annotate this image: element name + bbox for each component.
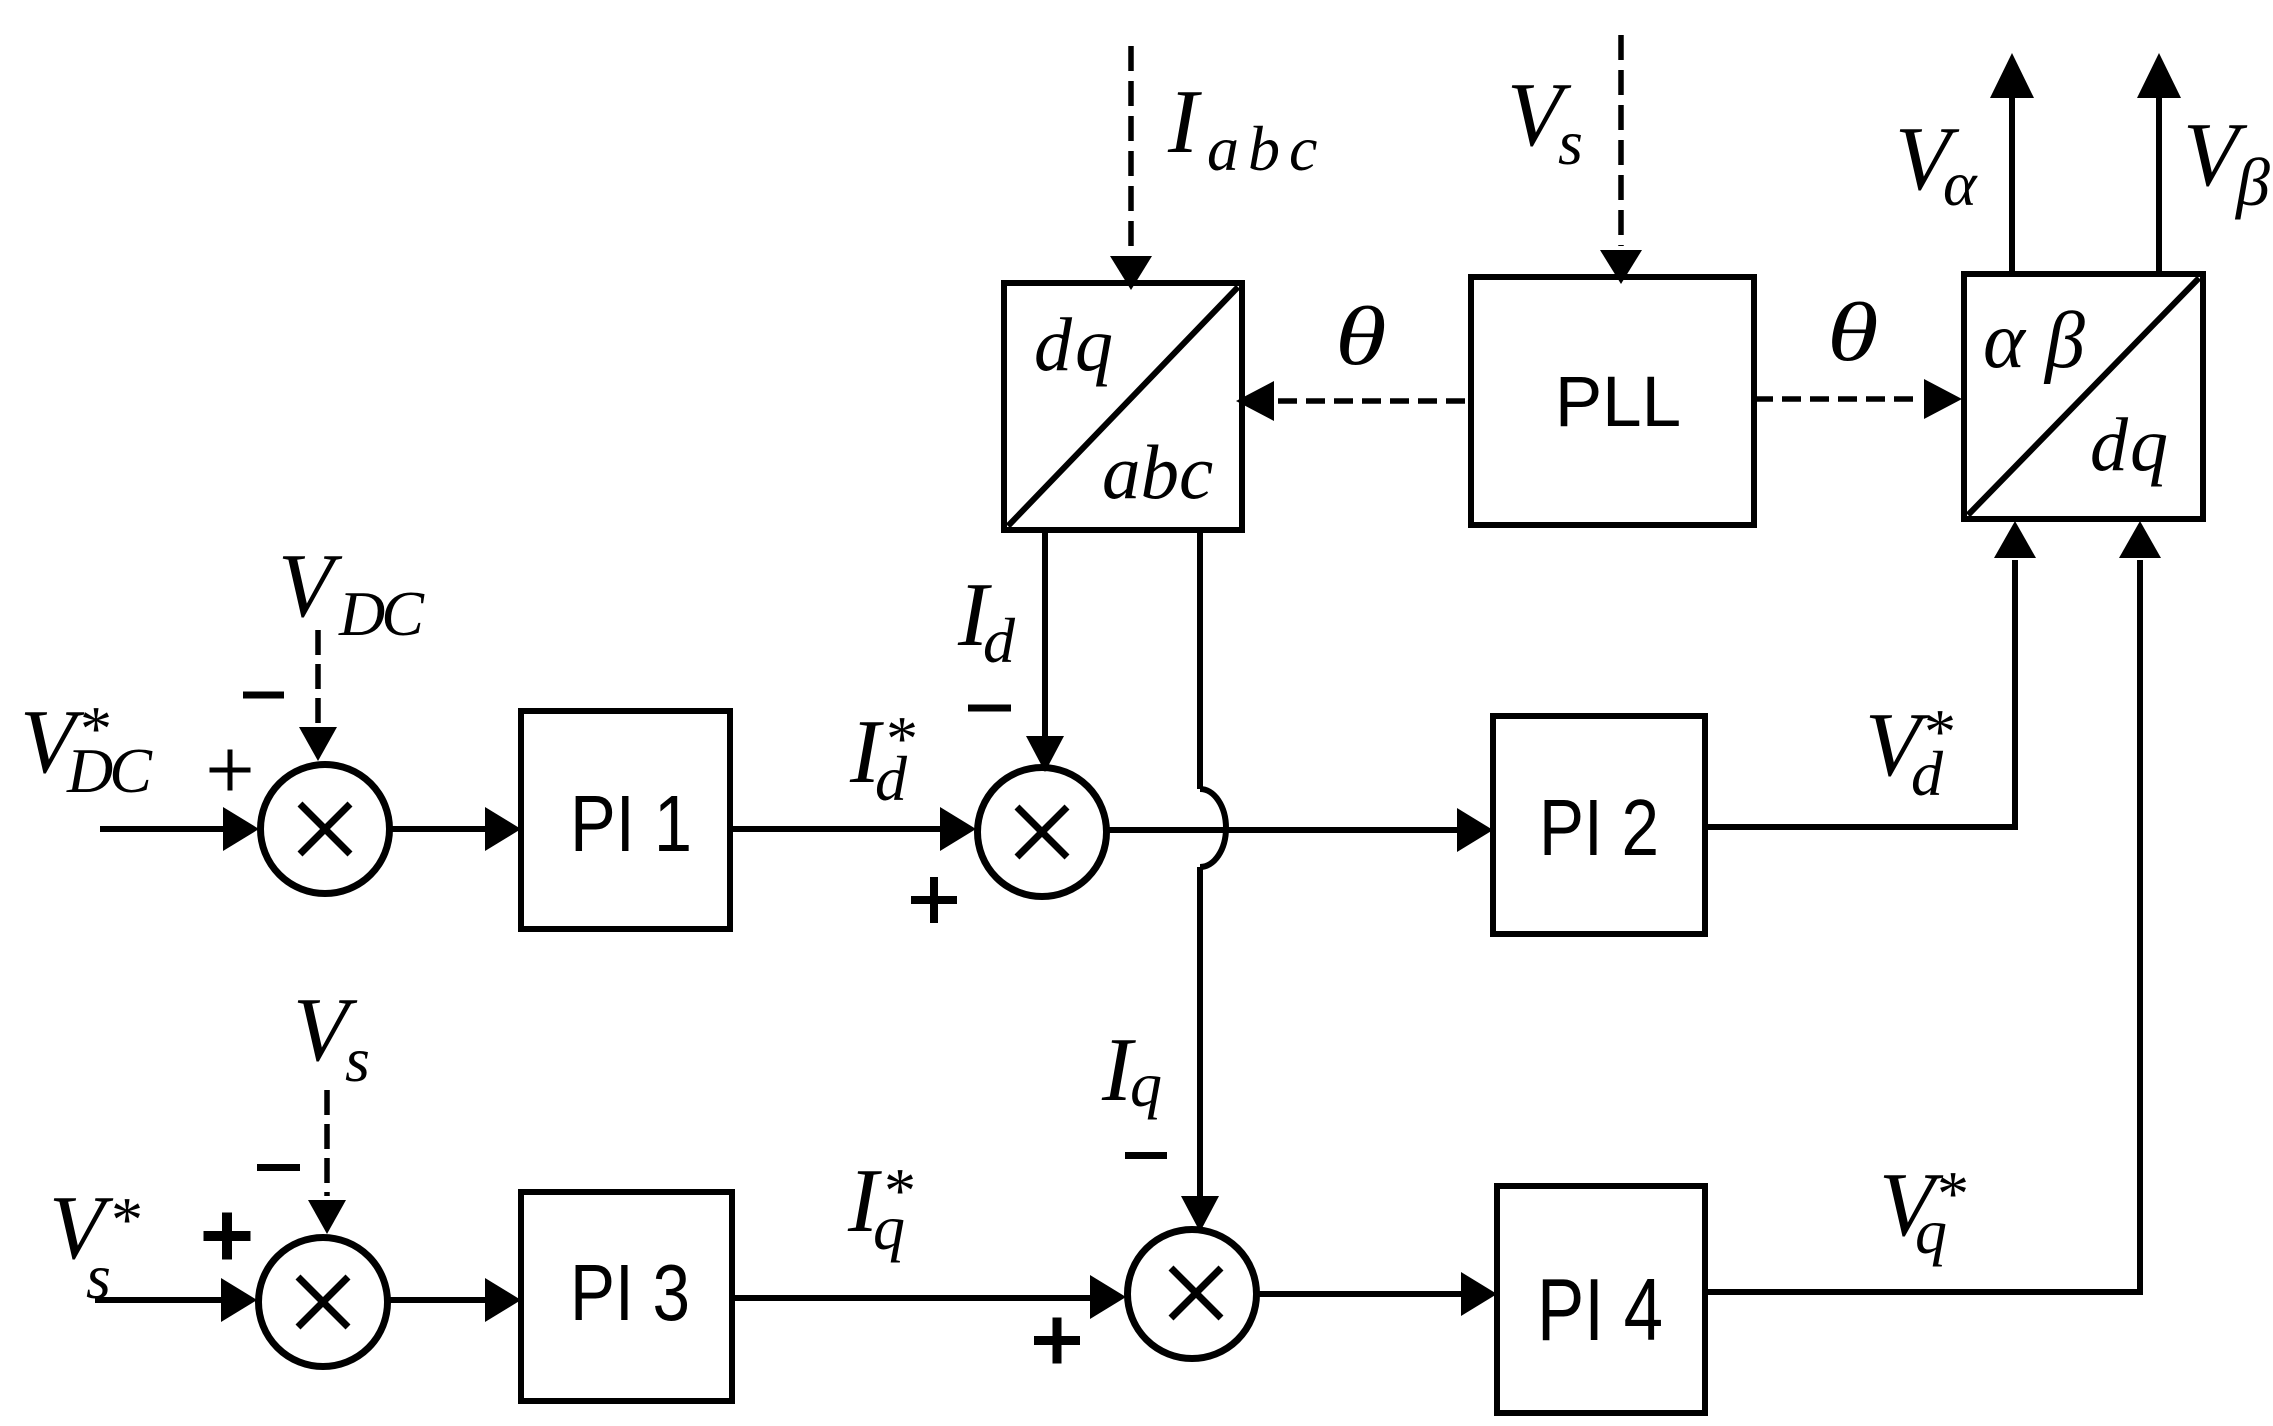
svg-text:I: I [1167, 71, 1202, 172]
svg-text:*: * [1934, 1158, 1966, 1229]
svg-text:dq: dq [2090, 403, 2170, 487]
svg-text:θ: θ [1335, 289, 1387, 383]
svg-text:DC: DC [338, 578, 425, 649]
svg-text:PI 3: PI 3 [570, 1248, 690, 1337]
svg-text:PI 1: PI 1 [570, 779, 692, 868]
svg-text:V: V [278, 535, 343, 636]
svg-text:α: α [1943, 148, 1978, 219]
svg-text:*: * [108, 1184, 140, 1255]
svg-text:d: d [983, 605, 1016, 676]
svg-text:α β: α β [1983, 297, 2085, 385]
svg-text:q: q [1130, 1049, 1162, 1120]
svg-text:s: s [345, 1024, 370, 1095]
svg-text:abc: abc [1207, 113, 1326, 184]
svg-text:*: * [1921, 696, 1953, 767]
svg-text:s: s [1558, 107, 1583, 178]
svg-text:PI 2: PI 2 [1539, 783, 1659, 872]
svg-text:PI 4: PI 4 [1537, 1260, 1663, 1359]
svg-text:θ: θ [1827, 285, 1879, 379]
svg-text:abc: abc [1102, 429, 1213, 515]
svg-text:*: * [77, 693, 109, 764]
svg-text:PLL: PLL [1555, 363, 1681, 442]
svg-text:*: * [881, 1155, 913, 1226]
svg-text:dq: dq [1034, 303, 1116, 387]
svg-text:*: * [883, 703, 915, 774]
svg-text:β: β [2234, 144, 2270, 220]
